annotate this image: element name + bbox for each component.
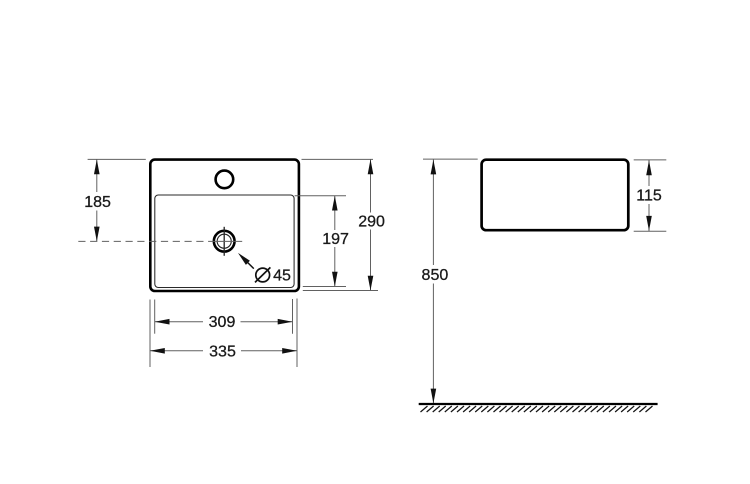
dim 309 arrow left <box>155 319 170 325</box>
dim 197 bottom extension line <box>303 286 346 288</box>
dim 335 line right <box>241 350 297 352</box>
dim 197 line lower <box>334 247 336 287</box>
drain outer circle <box>214 231 235 252</box>
dim 850 top extension line <box>423 158 478 160</box>
dim 197 top extension line <box>295 195 346 197</box>
dim 335 extension line left <box>149 300 151 368</box>
dim 309 line left <box>155 321 203 323</box>
svg-text:45: 45 <box>273 267 291 284</box>
dim 185 line lower <box>96 211 98 242</box>
dim 290 line lower <box>370 230 372 291</box>
dashed centre line <box>78 240 209 242</box>
svg-text:197: 197 <box>322 231 349 248</box>
dim 197 arrow down <box>332 272 338 287</box>
leader arrowhead <box>238 253 250 265</box>
dim 197 line upper <box>334 196 336 230</box>
dim 335 arrow left <box>150 348 165 354</box>
dim 290 arrow up <box>368 159 374 174</box>
dim 290 top extension line <box>302 158 374 160</box>
drain crosshair horizontal <box>210 240 243 242</box>
svg-text:335: 335 <box>209 343 236 360</box>
dim 850 arrow up <box>431 160 437 175</box>
drain inner circle <box>217 234 231 248</box>
svg-text:290: 290 <box>358 214 385 231</box>
dim 115 bottom extension line <box>634 230 667 232</box>
dim 185 arrow down <box>94 227 100 242</box>
dim 850 line upper <box>432 159 434 265</box>
dim 335 extension line right <box>296 299 298 368</box>
svg-text:309: 309 <box>209 314 236 331</box>
svg-text:115: 115 <box>636 188 662 205</box>
basin outer rect (plan view) <box>150 160 299 291</box>
dim 197 arrow up <box>332 196 338 211</box>
dim 309 extension line left <box>154 300 156 334</box>
dim 115 top extension line <box>634 159 667 161</box>
diameter symbol <box>255 267 270 282</box>
dim 290 line upper <box>370 159 372 212</box>
dim 335 line left <box>150 350 203 352</box>
basin inner rect (plan view) <box>155 195 294 288</box>
drain crosshair vertical <box>223 227 225 256</box>
dim 309 line right <box>241 321 293 323</box>
dim 115 line lower <box>648 204 650 231</box>
dim 309 extension line right <box>292 299 294 334</box>
dim 185 line upper <box>96 159 98 192</box>
floor line <box>419 403 658 405</box>
dim 115 line upper <box>648 160 650 186</box>
faucet hole <box>216 171 234 189</box>
dim 185 top extension line <box>88 158 146 160</box>
svg-text:850: 850 <box>422 267 449 284</box>
leader line to drain <box>247 262 254 269</box>
dim 850 arrow down <box>431 389 437 404</box>
dim 309 arrow right <box>278 319 293 325</box>
dim 850 line lower <box>432 284 434 404</box>
basin side view rect <box>482 160 629 231</box>
dim 115 arrow down <box>646 216 652 231</box>
dim 290 bottom extension line <box>303 290 378 292</box>
dim 185 arrow up <box>94 159 100 174</box>
floor hatching <box>421 406 653 412</box>
dim 290 arrow down <box>368 276 374 291</box>
dim 115 arrow up <box>646 160 652 175</box>
dim 335 arrow right <box>282 348 297 354</box>
svg-text:185: 185 <box>84 194 111 211</box>
